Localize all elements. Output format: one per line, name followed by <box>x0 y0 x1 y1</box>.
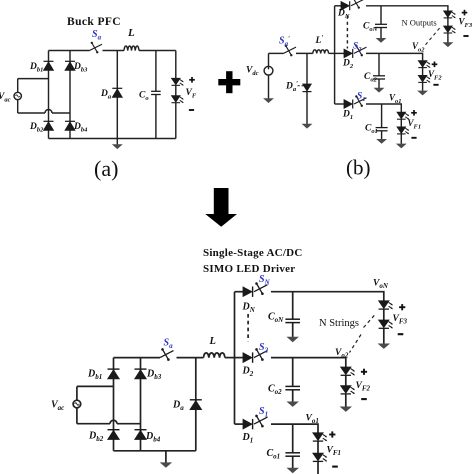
svg-text:S1: S1 <box>357 92 366 104</box>
svg-text:VF1: VF1 <box>327 446 342 458</box>
svg-text:VF2: VF2 <box>356 381 371 393</box>
svg-text:S2: S2 <box>353 42 362 54</box>
svg-text:Co: Co <box>139 91 149 103</box>
svg-text:(a): (a) <box>94 156 118 181</box>
svg-text:L: L <box>209 336 216 347</box>
svg-text:DN: DN <box>242 302 256 315</box>
svg-text:(b): (b) <box>346 156 371 180</box>
svg-text:Db1: Db1 <box>29 62 43 74</box>
svg-text:Vo1: Vo1 <box>306 414 319 426</box>
svg-text:SN: SN <box>259 274 271 287</box>
svg-text:N Strings: N Strings <box>319 318 359 329</box>
svg-text:D1: D1 <box>342 110 353 122</box>
svg-text:DN: DN <box>337 9 350 21</box>
svg-text:Sa′: Sa′ <box>279 35 290 48</box>
svg-text:VoN: VoN <box>373 279 389 291</box>
svg-text:L: L <box>127 27 135 39</box>
svg-text:L′: L′ <box>315 34 324 46</box>
svg-text:N Outputs: N Outputs <box>402 18 437 28</box>
svg-text:D1: D1 <box>242 432 254 445</box>
svg-text:Vo2: Vo2 <box>412 41 425 54</box>
svg-text:SIMO LED Driver: SIMO LED Driver <box>203 263 295 275</box>
svg-text:Vdc: Vdc <box>246 66 259 78</box>
svg-text:Db2: Db2 <box>88 431 104 444</box>
svg-text:Co1: Co1 <box>267 448 281 461</box>
svg-text:S2: S2 <box>259 342 269 355</box>
svg-text:Vac: Vac <box>51 400 64 413</box>
svg-text:Vo2: Vo2 <box>335 348 349 360</box>
svg-text:Da: Da <box>100 89 112 101</box>
svg-text:Db4: Db4 <box>73 122 88 134</box>
svg-text:VF1: VF1 <box>408 118 422 131</box>
svg-text:Db3: Db3 <box>73 62 88 74</box>
svg-text:CoN: CoN <box>363 22 378 34</box>
svg-text:Co1: Co1 <box>365 124 378 136</box>
svg-text:Db1: Db1 <box>87 369 102 382</box>
svg-text:Single-Stage AC/DC: Single-Stage AC/DC <box>203 247 303 259</box>
svg-text:Buck PFC: Buck PFC <box>67 16 121 28</box>
svg-text:S1: S1 <box>259 406 268 419</box>
svg-text:VF3: VF3 <box>393 314 408 326</box>
svg-text:Db2: Db2 <box>29 122 44 134</box>
svg-text:Db4: Db4 <box>145 431 161 444</box>
svg-text:Co2: Co2 <box>364 72 378 84</box>
svg-text:Sa: Sa <box>164 338 174 351</box>
svg-text:VF2: VF2 <box>428 69 442 82</box>
svg-text:VF3: VF3 <box>459 17 473 30</box>
svg-text:Da′: Da′ <box>285 80 298 93</box>
svg-text:Da: Da <box>172 400 184 413</box>
svg-text:Sa: Sa <box>92 29 102 42</box>
svg-text:D2: D2 <box>242 366 254 379</box>
svg-text:CoN: CoN <box>268 312 284 325</box>
svg-text:Co2: Co2 <box>268 384 282 397</box>
svg-text:Vac: Vac <box>0 92 11 104</box>
svg-text:D2: D2 <box>342 59 354 71</box>
svg-text:Vo1: Vo1 <box>389 93 402 106</box>
svg-text:VF: VF <box>186 88 197 100</box>
svg-text:Db3: Db3 <box>146 369 162 382</box>
